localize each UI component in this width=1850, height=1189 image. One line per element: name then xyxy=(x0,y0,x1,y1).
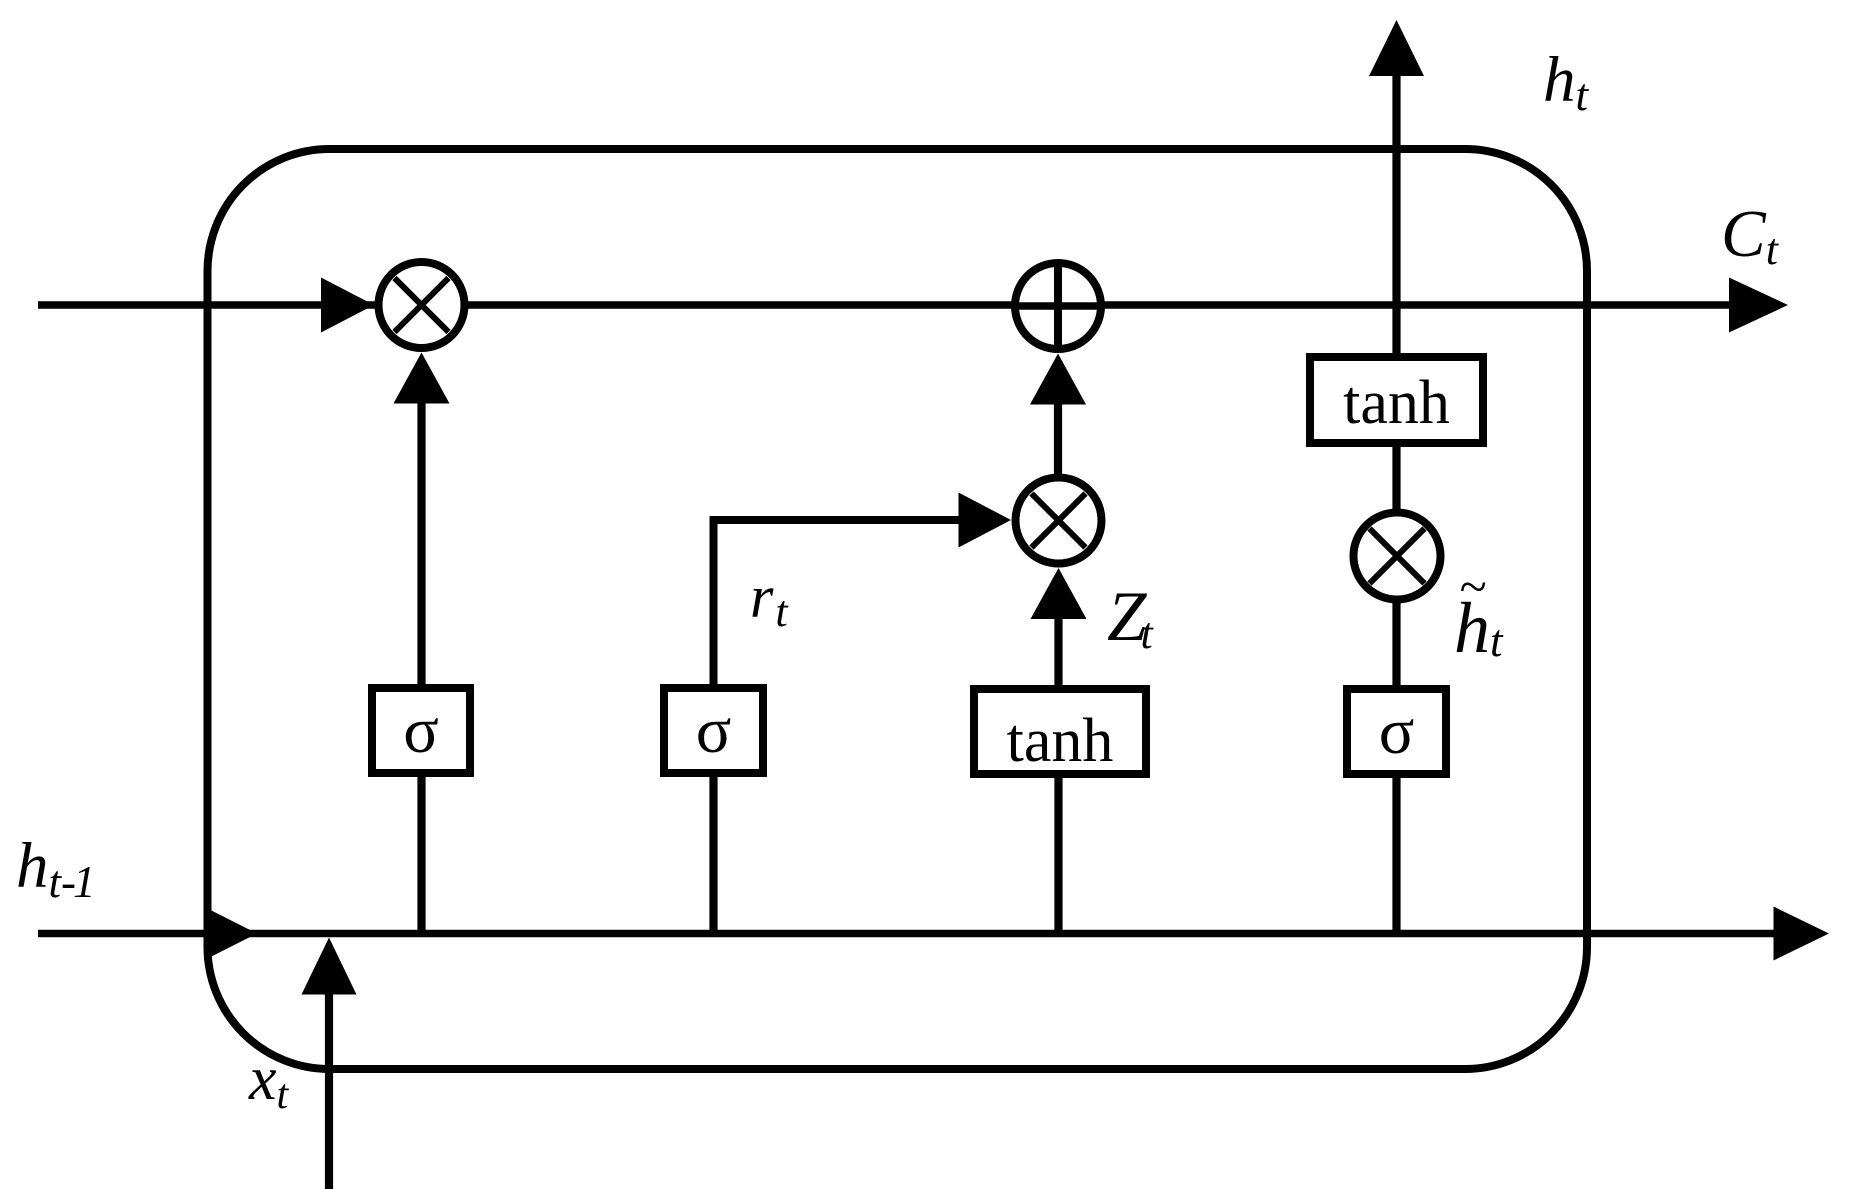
multiplier node M1 (on cell-state line) xyxy=(379,262,465,348)
sigma gate box G4 xyxy=(1347,689,1446,774)
multiplier node M2 (update gate product) xyxy=(1016,478,1102,564)
cell body rounded rectangle xyxy=(208,149,1588,1069)
tanh box G5 (output squash) xyxy=(1310,357,1483,443)
adder node (on cell-state line) xyxy=(1012,260,1104,352)
svg-text:σ: σ xyxy=(696,694,732,767)
arrowhead: M2 into adder xyxy=(1030,354,1086,405)
wire: link multiplier M2 to adder xyxy=(1054,402,1062,474)
svg-text:rt: rt xyxy=(750,564,789,636)
svg-text:σ: σ xyxy=(403,694,439,767)
wire: bottom hidden-state line h (horizontal, y=933.5) xyxy=(38,930,1780,938)
svg-text:Ct: Ct xyxy=(1721,197,1780,274)
wire: output branch riser at x=1396.5 xyxy=(1392,74,1400,934)
tanh gate box G3 xyxy=(974,689,1146,774)
wire: reset-gate stub below sigma box G2 xyxy=(709,770,717,934)
svg-text:tanh: tanh xyxy=(1007,707,1114,775)
wire: candidate riser from bottom line to multiplier M2 xyxy=(1054,615,1062,934)
svg-text:tanh: tanh xyxy=(1343,369,1450,437)
wire: input x_t riser xyxy=(325,991,333,1189)
wire: cell-state line C (horizontal, y=305) xyxy=(38,301,1740,309)
sigma gate box G2 xyxy=(664,688,763,773)
arrowhead: tanh G3 into M2 xyxy=(1031,568,1087,619)
arrowhead: reset elbow into M2 xyxy=(959,493,1012,548)
sigma gate box G1 xyxy=(372,688,470,773)
label h-tilde_t (candidate) xyxy=(1454,558,1504,668)
wire: reset-gate elbow r_t xyxy=(714,520,963,687)
arrowhead: x_t into bottom line xyxy=(302,938,357,995)
svg-text:σ: σ xyxy=(1379,695,1415,768)
arrowhead: cell-state output C_t xyxy=(1729,278,1788,333)
arrowhead: output h_t (top) xyxy=(1369,20,1424,76)
arrowhead: hidden-state output (bottom right) xyxy=(1774,907,1830,961)
svg-text:ht: ht xyxy=(1543,44,1590,120)
svg-text:ht-1: ht-1 xyxy=(16,830,93,907)
wire: forget-gate riser at x=421.5 xyxy=(417,400,425,934)
svg-text:Zt: Zt xyxy=(1107,578,1155,658)
arrowhead: forget riser into M1 xyxy=(394,353,450,404)
multiplier node M3 (candidate product) xyxy=(1354,513,1441,600)
arrowhead: h_{t-1} entering cell xyxy=(204,907,257,961)
arrowhead: cell-state into M1 xyxy=(321,278,374,333)
svg-text:~: ~ xyxy=(1459,558,1486,614)
